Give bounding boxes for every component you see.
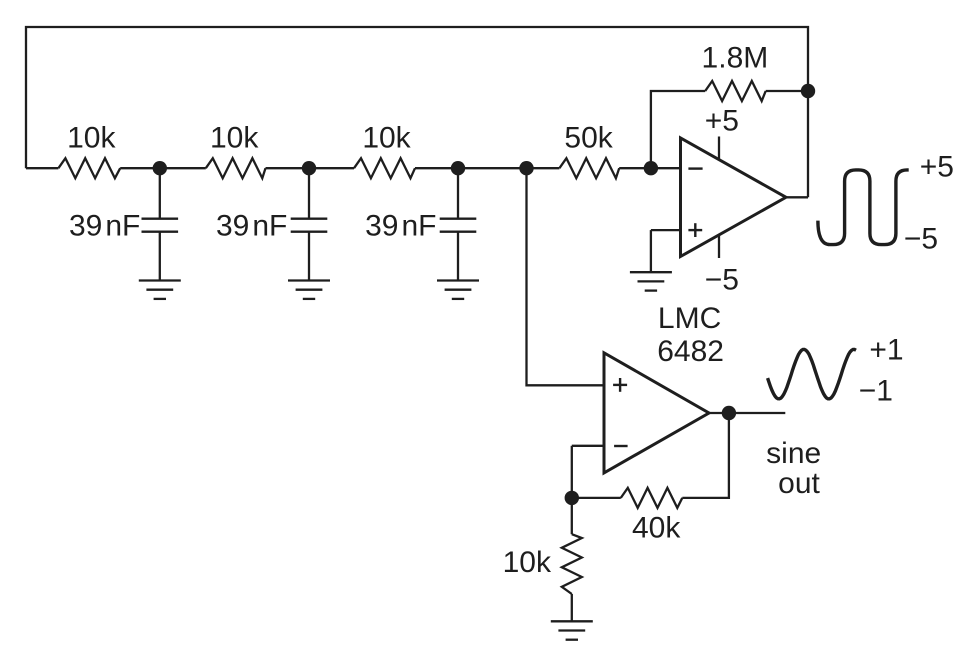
svg-text:39nF: 39nF (216, 209, 287, 242)
svg-text:39nF: 39nF (69, 209, 140, 242)
svg-text:sine: sine (766, 437, 821, 470)
svg-text:+5: +5 (920, 151, 954, 184)
svg-text:+1: +1 (869, 334, 903, 367)
svg-text:10k: 10k (362, 122, 411, 155)
svg-text:6482: 6482 (657, 335, 724, 368)
svg-text:out: out (778, 467, 820, 500)
svg-text:−1: −1 (859, 375, 893, 408)
svg-text:−5: −5 (705, 264, 739, 297)
svg-text:LMC: LMC (658, 302, 721, 335)
svg-text:10k: 10k (210, 122, 259, 155)
svg-text:39nF: 39nF (365, 209, 436, 242)
svg-text:1.8M: 1.8M (702, 42, 769, 75)
svg-text:10k: 10k (503, 546, 552, 579)
svg-text:+5: +5 (705, 104, 739, 137)
svg-text:50k: 50k (564, 122, 613, 155)
svg-text:40k: 40k (632, 512, 681, 545)
svg-text:10k: 10k (67, 122, 116, 155)
svg-text:−5: −5 (904, 223, 938, 256)
